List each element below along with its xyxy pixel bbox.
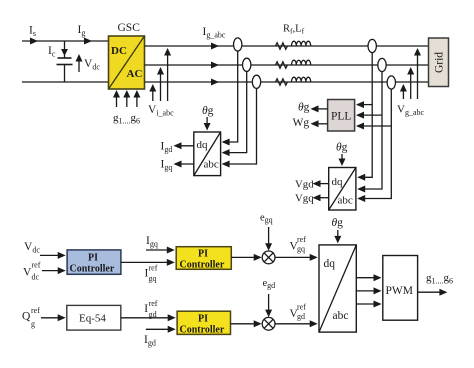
svg-text:Vgd: Vgd xyxy=(295,179,314,191)
wire: Igd output xyxy=(175,145,194,147)
svg-text:Igd: Igd xyxy=(161,141,173,155)
svg-text:Wg: Wg xyxy=(293,117,310,129)
block PWM xyxy=(383,256,418,321)
wire: Vdc ref into PI1 xyxy=(42,270,64,272)
summer 1 (circle with X) xyxy=(262,251,275,264)
block Eq-54 xyxy=(67,305,121,330)
wire: drop from CT b to dq1 xyxy=(223,71,247,152)
controller PI 2 (yellow) xyxy=(176,247,231,270)
wire: drop from CT a to dq1 xyxy=(223,51,238,142)
svg-text:g1....g6: g1....g6 xyxy=(426,272,453,286)
wire: thetag into block2 xyxy=(341,154,343,164)
svg-text:PWM: PWM xyxy=(386,285,413,297)
converter GSC xyxy=(109,36,145,89)
wire: Igq output xyxy=(175,163,194,165)
wire: Vdc into PI1 xyxy=(40,254,64,256)
svg-text:Igq: Igq xyxy=(161,159,173,173)
svg-text:Qrefg: Qrefg xyxy=(22,306,40,329)
wire: Igd feedback into PI3 xyxy=(146,328,174,330)
svg-text:GSC: GSC xyxy=(118,22,141,34)
VT circle phase a (right) xyxy=(368,39,376,52)
controller PI 3 (yellow) xyxy=(177,311,230,334)
wire: PLL thetag output xyxy=(312,108,328,110)
arrows Vg_abc measurement xyxy=(400,48,421,99)
svg-text:abc: abc xyxy=(333,310,349,322)
svg-text:Grid: Grid xyxy=(434,52,446,73)
wire: egq into sum1 xyxy=(268,227,270,249)
svg-text:θg: θg xyxy=(332,217,344,229)
wire: Vgq output xyxy=(314,197,329,199)
svg-text:Igq: Igq xyxy=(146,235,158,249)
svg-text:dq: dq xyxy=(197,139,209,151)
wire: phase line b xyxy=(145,64,429,66)
wire: dq3 to PWM line 3 xyxy=(356,303,380,305)
wire: DC bus top xyxy=(22,40,109,42)
svg-text:Vg_abc: Vg_abc xyxy=(397,104,425,118)
wire: PI2 output to sum1 xyxy=(231,256,260,258)
svg-text:PI: PI xyxy=(198,314,208,325)
wire: thetag into block3 xyxy=(337,230,339,242)
block Grid xyxy=(429,38,449,87)
summer 2 (circle with X) xyxy=(262,317,275,330)
wire: phase line c xyxy=(145,81,429,83)
svg-text:PI: PI xyxy=(88,253,98,264)
svg-text:g1....g6: g1....g6 xyxy=(113,112,140,126)
wire: PWM output g1...g6 xyxy=(418,291,446,293)
svg-text:Vrefdc: Vrefdc xyxy=(23,261,41,282)
svg-text:Vrefgd: Vrefgd xyxy=(290,302,307,321)
wire: DC bus bottom xyxy=(22,81,109,83)
resistor Rf phase c xyxy=(276,79,288,85)
wire: Igq feedback into PI2 xyxy=(146,249,173,251)
svg-text:Vi_abc: Vi_abc xyxy=(148,104,174,118)
svg-text:egd: egd xyxy=(263,278,276,290)
CT circle phase b (left) xyxy=(243,58,251,71)
wire: PLL Wg output xyxy=(312,123,328,125)
svg-text:Controller: Controller xyxy=(70,264,115,275)
wire: drop from VT b to PLL and dq2 xyxy=(359,72,383,189)
svg-text:θg: θg xyxy=(336,142,348,154)
svg-text:PLL: PLL xyxy=(331,111,351,123)
svg-text:Ig_abc: Ig_abc xyxy=(203,26,226,40)
resistor Rf phase a xyxy=(276,43,288,49)
wire: dq3 to PWM line 1 xyxy=(356,277,380,279)
svg-text:Irefgq: Irefgq xyxy=(145,264,158,284)
svg-text:dq: dq xyxy=(332,176,344,188)
wire: Vgd output xyxy=(314,183,329,185)
svg-text:dq: dq xyxy=(324,258,336,270)
inductor Lf phase b xyxy=(292,60,311,65)
svg-text:PI: PI xyxy=(198,249,208,260)
svg-text:Vdc: Vdc xyxy=(24,241,40,255)
capacitor C (DC link) xyxy=(57,41,73,82)
wire: Vgq ref to dq3 xyxy=(275,256,316,258)
svg-text:Eq-54: Eq-54 xyxy=(79,313,106,325)
wire: drop from VT a to PLL and dq2 xyxy=(359,53,373,178)
inductor Lf phase c xyxy=(292,77,311,82)
wire: Igq ref from PI1 to PI2 xyxy=(121,261,173,263)
svg-text:Vdc: Vdc xyxy=(84,58,100,72)
wire: Qg ref into Eq-54 xyxy=(41,317,64,319)
svg-text:DC: DC xyxy=(111,45,127,57)
svg-text:Vgq: Vgq xyxy=(295,193,314,205)
wire: egd into sum2 xyxy=(268,294,270,315)
wire: Vgd ref to dq3 xyxy=(275,323,316,325)
inductor Lf phase a xyxy=(292,41,311,46)
svg-text:egq: egq xyxy=(260,213,273,225)
svg-text:θg: θg xyxy=(298,102,310,114)
CT circle phase a (left) xyxy=(234,38,242,51)
svg-text:abc: abc xyxy=(338,195,353,207)
block dq/abc 3 (inverse transform) xyxy=(319,245,356,332)
VT circle phase c (right) xyxy=(387,76,395,89)
wire: drop from CT c to dq1 xyxy=(223,88,257,164)
svg-text:θg: θg xyxy=(202,105,214,117)
wire: thetag into block1 xyxy=(206,117,208,129)
svg-text:Irefgd: Irefgd xyxy=(144,299,158,319)
svg-text:Ic: Ic xyxy=(48,45,56,59)
block dq/abc 1 (current transform) xyxy=(194,132,221,176)
svg-text:Controller: Controller xyxy=(180,325,225,336)
arrow Vdc voltage xyxy=(76,54,83,72)
svg-text:Rf,Lf: Rf,Lf xyxy=(283,24,305,36)
svg-text:Vrefgq: Vrefgq xyxy=(290,235,307,254)
svg-text:Ig: Ig xyxy=(78,24,86,38)
arrows Vi_abc measurement xyxy=(149,48,171,101)
wire: dq3 to PWM line 2 xyxy=(356,290,380,292)
resistor Rf phase b xyxy=(276,62,288,68)
svg-text:Controller: Controller xyxy=(180,260,225,271)
CT circle phase c (left) xyxy=(252,75,260,88)
svg-text:Is: Is xyxy=(29,25,36,39)
VT circle phase b (right) xyxy=(378,58,386,71)
wire: phase line a xyxy=(145,45,429,47)
wire: Igd ref from Eq-54 to PI3 xyxy=(121,317,174,319)
svg-text:abc: abc xyxy=(204,159,219,171)
block dq/abc 2 (voltage transform) xyxy=(329,168,356,211)
svg-text:Igd: Igd xyxy=(144,334,156,348)
svg-text:AC: AC xyxy=(127,68,143,80)
wire: drop from VT c to PLL and dq2 xyxy=(359,89,392,198)
block PLL xyxy=(328,100,355,132)
wire: PI3 output to sum2 xyxy=(231,323,261,325)
controller PI 1 (blue) xyxy=(67,250,121,274)
gate arrows g1..g6 into GSC xyxy=(113,90,140,107)
